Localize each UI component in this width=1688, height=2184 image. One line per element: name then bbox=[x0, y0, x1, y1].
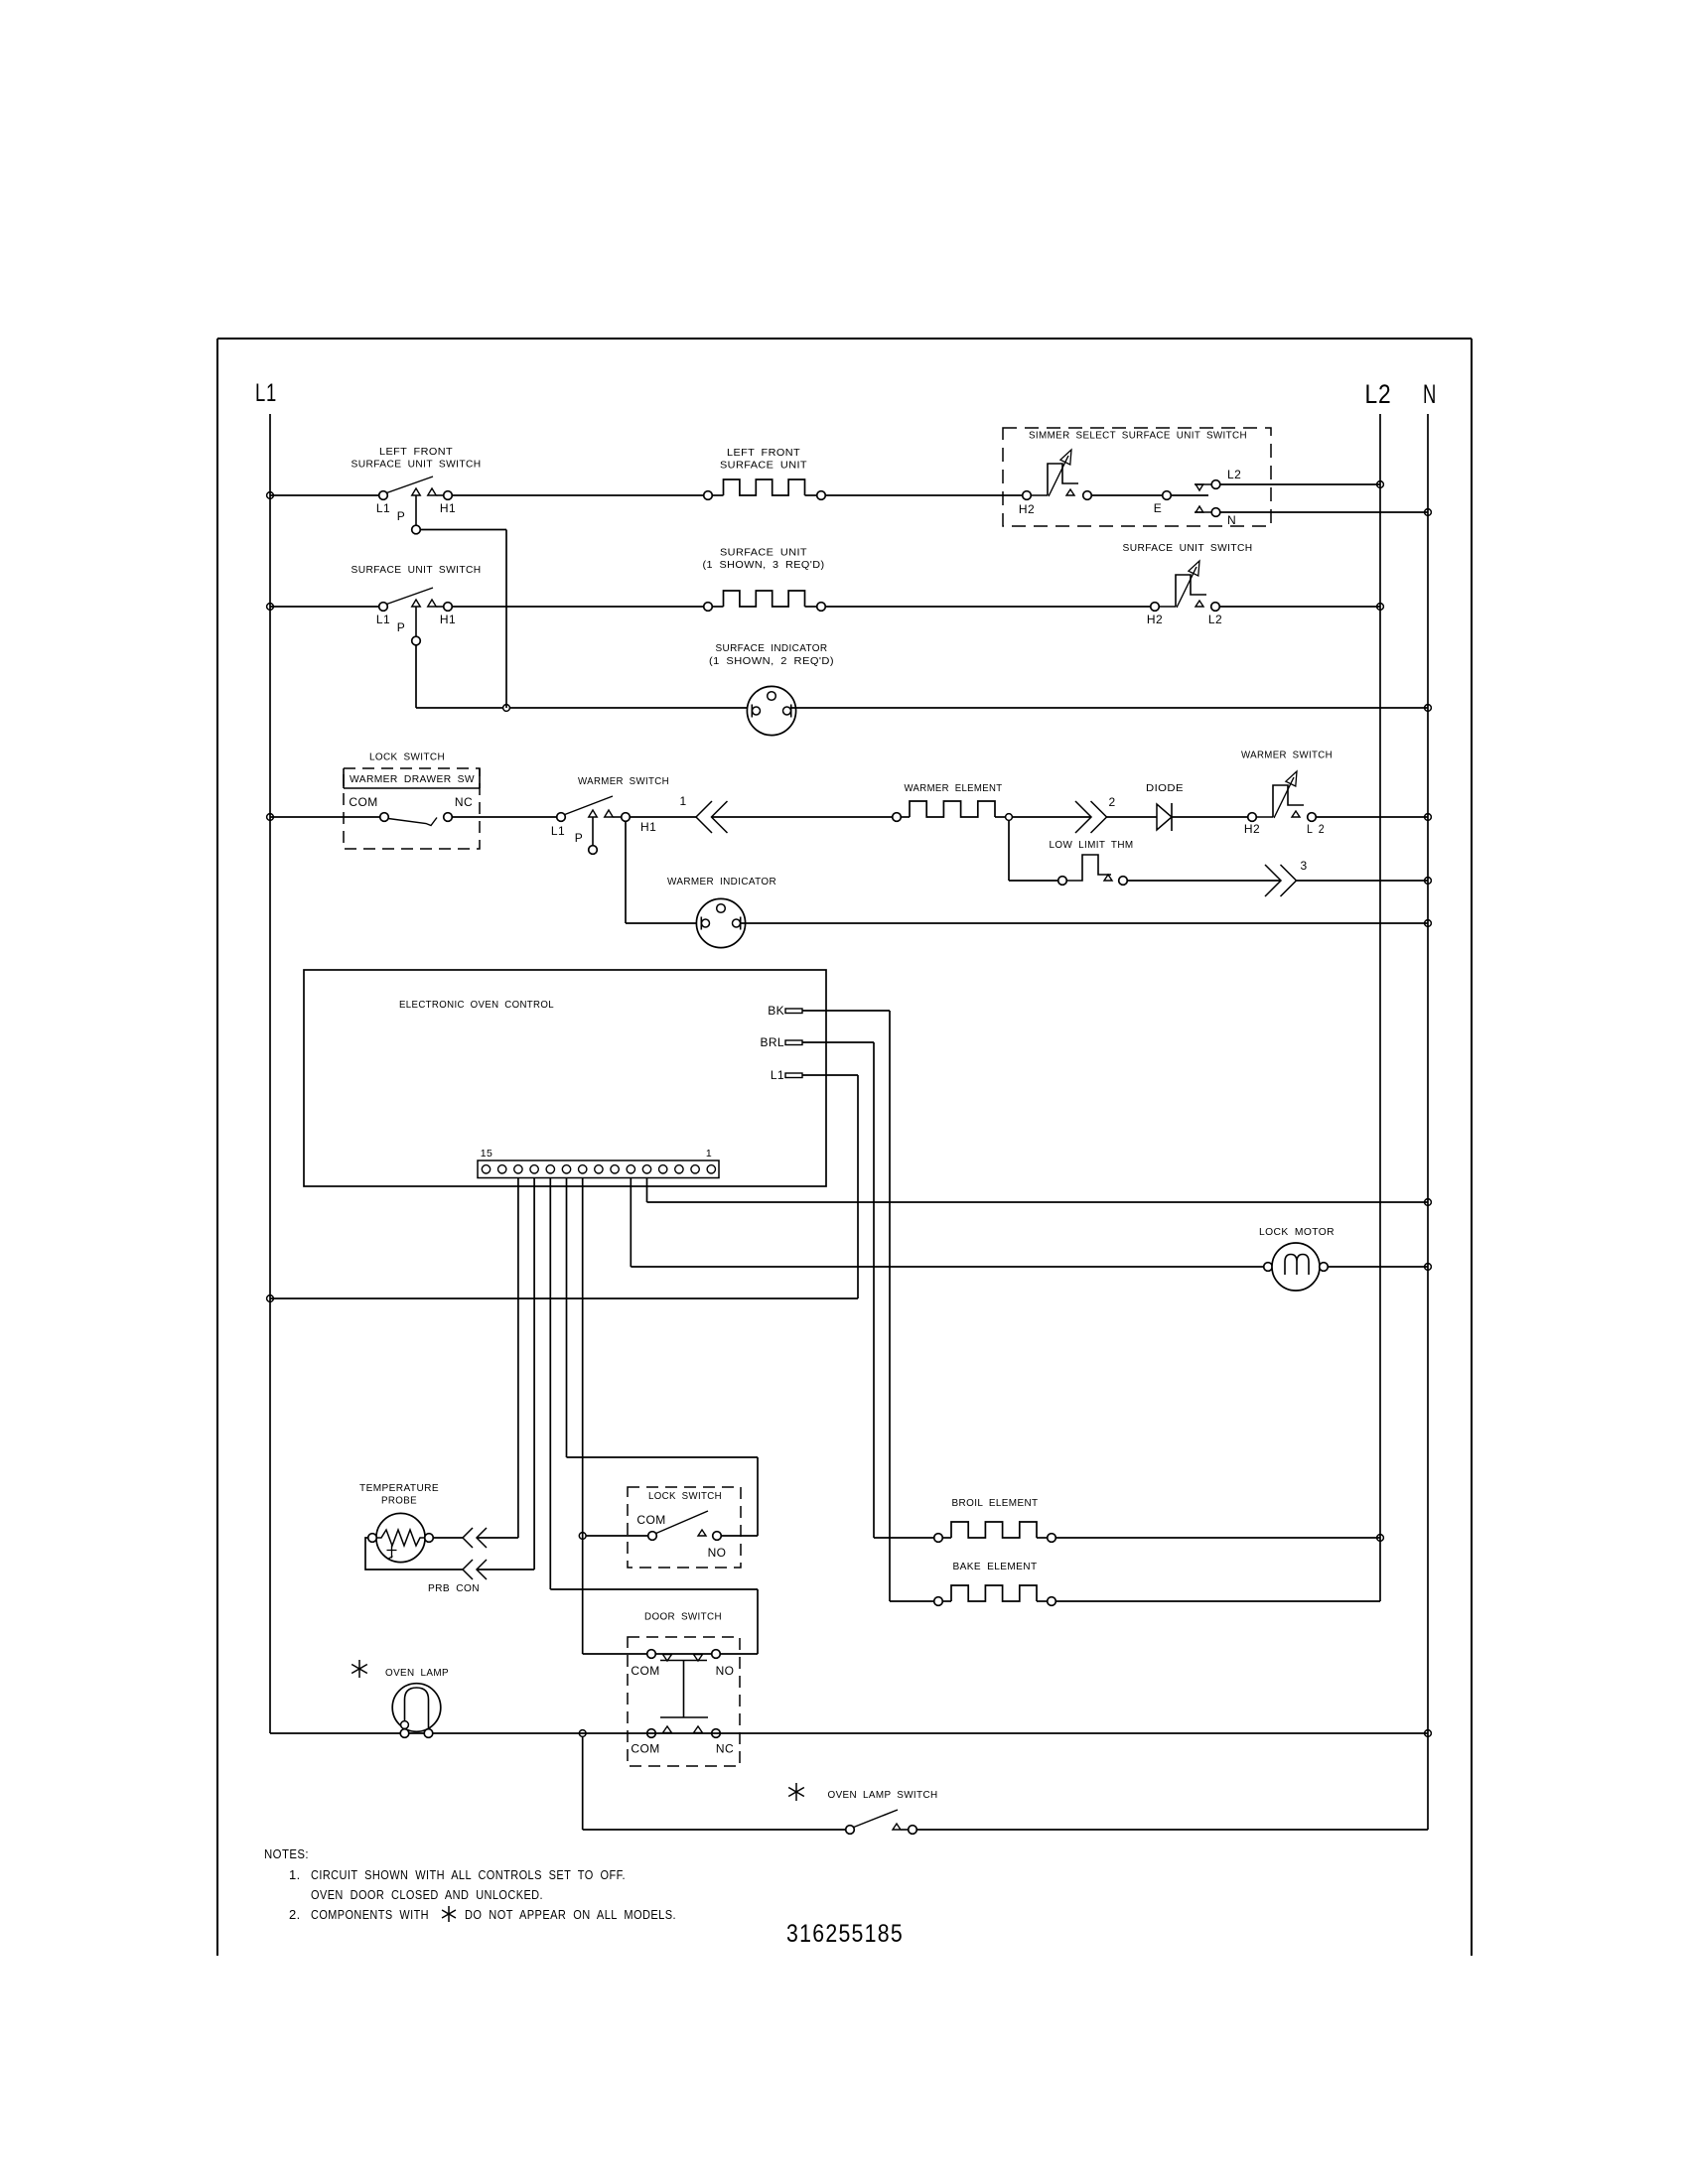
wire oven lamp switch to N rail bbox=[916, 1829, 1428, 1831]
wire upper connector to pin 13 wire bbox=[477, 1537, 518, 1539]
svg-text:(1 SHOWN, 2 REQ'D): (1 SHOWN, 2 REQ'D) bbox=[709, 655, 834, 667]
wire lock switch NO to pin10 drop bbox=[721, 1535, 758, 1537]
warmer element bbox=[893, 813, 902, 822]
wire warmer drawer NC to warmer switch L1 bbox=[452, 816, 556, 818]
wire pilot junction to surface indicator bbox=[509, 707, 752, 709]
wire BK to bake element bbox=[889, 1011, 891, 1601]
simmer select output contact L2 branch bbox=[1195, 483, 1211, 485]
terminal strip pin 11 bbox=[546, 1165, 554, 1173]
lock switch contact NO bbox=[713, 1532, 722, 1541]
svg-text:WARMER INDICATOR: WARMER INDICATOR bbox=[667, 876, 776, 887]
electronic oven control box bbox=[304, 970, 826, 1186]
wire pin 10 to lock switch NO bbox=[566, 1178, 568, 1457]
svg-text:L1: L1 bbox=[255, 379, 277, 407]
terminal strip pin 13 bbox=[514, 1165, 522, 1173]
svg-text:E: E bbox=[1154, 501, 1162, 515]
svg-text:SURFACE INDICATOR: SURFACE INDICATOR bbox=[716, 642, 828, 654]
junction node N rail oven lamp row bbox=[1425, 1730, 1432, 1737]
oven lamp asterisk bbox=[358, 1660, 360, 1678]
svg-text:15: 15 bbox=[481, 1148, 492, 1160]
svg-text:H1: H1 bbox=[440, 501, 456, 515]
svg-text:2: 2 bbox=[1108, 795, 1115, 809]
wire E stub between output contacts bbox=[1171, 494, 1208, 496]
junction node L2 rail row2 bbox=[1377, 604, 1384, 611]
svg-text:LOCK MOTOR: LOCK MOTOR bbox=[1259, 1226, 1335, 1238]
wire surface indicator to N rail bbox=[791, 707, 1429, 709]
door switch upper contact COM bbox=[647, 1650, 656, 1659]
low limit thermostat bbox=[1058, 877, 1067, 886]
wire switch H1 to surface unit element bbox=[452, 606, 703, 608]
svg-text:L1: L1 bbox=[771, 1068, 784, 1082]
wire lower connector to pin 12 wire bbox=[477, 1569, 534, 1570]
junction node N rail lock motor row bbox=[1425, 1264, 1432, 1271]
wire pin 12 to temperature probe (-) bbox=[533, 1178, 535, 1570]
door switch actuator bbox=[660, 1661, 708, 1718]
svg-text:1.: 1. bbox=[289, 1867, 301, 1882]
svg-text:L2: L2 bbox=[1208, 613, 1222, 626]
wire BRL to broil element bbox=[874, 1537, 934, 1539]
svg-text:NC: NC bbox=[716, 1742, 734, 1756]
wire pin10 over to lock switch NO drop bbox=[567, 1456, 759, 1458]
wire low limit to connector 3 bbox=[1127, 880, 1281, 882]
svg-text:N: N bbox=[1423, 379, 1437, 409]
wire BRL to broil element bbox=[873, 1042, 875, 1538]
wire EOC L1 down and to L1 rail bbox=[857, 1075, 859, 1298]
svg-text:CIRCUIT SHOWN WITH ALL CONTROL: CIRCUIT SHOWN WITH ALL CONTROLS SET TO O… bbox=[311, 1867, 626, 1882]
svg-text:PRB CON: PRB CON bbox=[428, 1582, 480, 1594]
wire pin11 over to door switch NO drop bbox=[550, 1588, 758, 1590]
wire bake element to L2 rail bottom bbox=[1055, 1600, 1380, 1602]
svg-text:SURFACE UNIT: SURFACE UNIT bbox=[720, 460, 807, 472]
warmer switch right thermostat actuator bbox=[1273, 785, 1304, 817]
terminal strip pin 7 bbox=[611, 1165, 619, 1173]
terminal strip pin 14 bbox=[498, 1165, 506, 1173]
svg-text:L 2: L 2 bbox=[1307, 822, 1325, 836]
oven lamp bbox=[392, 1684, 441, 1732]
warmer switch right moving contact triangle bbox=[1292, 811, 1300, 817]
page border frame bbox=[217, 338, 1472, 340]
svg-text:LOCK SWITCH: LOCK SWITCH bbox=[369, 751, 445, 763]
svg-text:L1: L1 bbox=[376, 501, 390, 515]
simmer select switch terminal E bbox=[1163, 491, 1172, 500]
svg-text:L1: L1 bbox=[551, 824, 565, 838]
lock switch contact COM bbox=[648, 1532, 657, 1541]
wire connector 3 to N rail bbox=[1297, 880, 1429, 882]
junction node L1 rail warmer row bbox=[267, 814, 274, 821]
terminal strip pin 2 bbox=[691, 1165, 699, 1173]
wire connector 2 to diode bbox=[1107, 816, 1158, 818]
door switch lower contact NC bbox=[712, 1729, 721, 1738]
power rail L2 bbox=[1379, 414, 1381, 1601]
simmer select switch contact H2 bbox=[1023, 491, 1032, 500]
pilot terminal P of row1 switch bbox=[415, 496, 417, 526]
surface unit heating element bbox=[704, 603, 713, 612]
wire pin 9 to lock switch COM / door switch COM bbox=[582, 1178, 584, 1654]
wire to oven lamp switch bbox=[583, 1829, 846, 1831]
junction node L1 rail EOC-L1 row bbox=[267, 1296, 274, 1302]
wire switch H1 to left front surface unit bbox=[452, 494, 703, 496]
svg-text:BK: BK bbox=[768, 1004, 784, 1018]
wire broil element to L2 rail bbox=[1055, 1537, 1380, 1539]
svg-text:SIMMER SELECT SURFACE UNIT SWI: SIMMER SELECT SURFACE UNIT SWITCH bbox=[1029, 430, 1247, 442]
EOC terminal strip bbox=[478, 1160, 719, 1178]
svg-text:LOCK SWITCH: LOCK SWITCH bbox=[648, 1490, 722, 1502]
warmer drawer sw label box bbox=[344, 768, 480, 788]
wire warmer element tap down to low limit thermostat bbox=[1008, 820, 1010, 881]
svg-text:2.: 2. bbox=[289, 1907, 301, 1922]
svg-text:COM: COM bbox=[631, 1742, 659, 1756]
svg-text:OVEN LAMP: OVEN LAMP bbox=[385, 1667, 449, 1679]
wire warmer element node to connector 2 bbox=[1012, 816, 1091, 818]
wire L1 rail to surface unit switch bbox=[270, 606, 379, 608]
wire probe right terminal to upper connector bbox=[433, 1537, 463, 1539]
lock switch blade bbox=[656, 1511, 708, 1534]
svg-text:WARMER SWITCH: WARMER SWITCH bbox=[578, 775, 669, 787]
svg-text:P: P bbox=[397, 620, 405, 634]
junction node N rail row1 bbox=[1425, 509, 1432, 516]
terminal strip pin 1 bbox=[707, 1165, 715, 1173]
surface unit switch thermostat actuator bbox=[1176, 575, 1206, 607]
wire pin9 to lock switch COM bbox=[586, 1535, 648, 1537]
temperature probe (thermistor in circle) bbox=[376, 1513, 425, 1562]
svg-text:COM: COM bbox=[636, 1513, 665, 1527]
terminal strip pin 15 bbox=[482, 1165, 490, 1173]
simmer select surface unit switch enclosure (dashed) bbox=[1003, 428, 1271, 526]
junction node N rail pin5 row bbox=[1425, 1199, 1432, 1206]
warmer switch blade bbox=[565, 796, 613, 815]
warmer drawer switch blade bbox=[388, 818, 437, 826]
simmer select switch thermostat actuator bbox=[1048, 464, 1078, 495]
terminal strip pin 4 bbox=[659, 1165, 667, 1173]
broil element bbox=[934, 1534, 943, 1543]
junction node pin9 wire at lock switch row bbox=[579, 1533, 586, 1540]
svg-text:LEFT FRONT: LEFT FRONT bbox=[379, 446, 453, 458]
warmer drawer switch enclosure (dashed) bbox=[344, 768, 480, 849]
bake element bbox=[934, 1597, 943, 1606]
svg-text:DIODE: DIODE bbox=[1146, 782, 1184, 794]
warmer switch right contact H2 bbox=[1248, 813, 1257, 822]
wire down to oven lamp switch row bbox=[582, 1736, 584, 1830]
wire warmer indicator to N rail bbox=[741, 922, 1429, 924]
wire simmer L2 contact to L2 rail bbox=[1220, 483, 1380, 485]
terminal strip pin 3 bbox=[675, 1165, 683, 1173]
wire probe left terminal loop to lower connector bbox=[365, 1538, 463, 1570]
oven lamp switch bbox=[846, 1826, 855, 1835]
junction node N rail low-limit row bbox=[1425, 878, 1432, 885]
svg-text:316255185: 316255185 bbox=[786, 1920, 904, 1948]
probe connector lower (chevrons) bbox=[463, 1560, 473, 1579]
terminal strip pin 6 bbox=[627, 1165, 634, 1173]
svg-text:NO: NO bbox=[708, 1546, 727, 1560]
junction node oven lamp row to lamp switch drop bbox=[579, 1730, 586, 1737]
temperature probe wiper mark bbox=[387, 1546, 397, 1560]
svg-text:COM: COM bbox=[631, 1664, 659, 1678]
svg-text:TEMPERATURE: TEMPERATURE bbox=[359, 1482, 439, 1494]
svg-text:WARMER DRAWER SW: WARMER DRAWER SW bbox=[350, 773, 475, 785]
terminal strip pin 8 bbox=[595, 1165, 603, 1173]
wire L1 rail to left front surface unit switch bbox=[270, 494, 379, 496]
warmer switch contact L1 bbox=[557, 813, 566, 822]
wire lock motor to N rail bbox=[1328, 1266, 1428, 1268]
svg-text:ELECTRONIC OVEN CONTROL: ELECTRONIC OVEN CONTROL bbox=[399, 999, 554, 1011]
wire simmer switch to terminal E bbox=[1091, 494, 1162, 496]
wire simmer N contact to N rail bbox=[1220, 511, 1428, 513]
svg-text:N: N bbox=[1227, 513, 1236, 527]
junction node N rail warmer row bbox=[1425, 814, 1432, 821]
surface unit switch right contact H2 bbox=[1151, 603, 1160, 612]
svg-text:WARMER ELEMENT: WARMER ELEMENT bbox=[905, 782, 1003, 794]
wire row2 P down to surface indicator row bbox=[415, 645, 417, 708]
connector plug 1 (chevrons) bbox=[696, 801, 712, 833]
svg-text:H2: H2 bbox=[1019, 502, 1035, 516]
simmer select output contact N branch bbox=[1195, 511, 1211, 513]
svg-text:COM: COM bbox=[349, 795, 377, 809]
wire pin 6 to lock motor bbox=[630, 1178, 632, 1267]
svg-text:H1: H1 bbox=[440, 613, 456, 626]
junction node L2 rail broil row bbox=[1377, 1535, 1384, 1542]
door switch upper contact NO bbox=[712, 1650, 721, 1659]
svg-text:DOOR SWITCH: DOOR SWITCH bbox=[644, 1611, 722, 1623]
wire pin9 to door switch COM row bbox=[583, 1653, 758, 1655]
wire warmer switch H1 down to warmer indicator bbox=[625, 821, 627, 923]
warmer switch pilot terminal P bbox=[592, 818, 594, 846]
wire diode to warmer switch H2 bbox=[1172, 816, 1248, 818]
svg-text:NO: NO bbox=[716, 1664, 735, 1678]
warmer switch pilot triangle bbox=[589, 810, 598, 817]
svg-text:L2: L2 bbox=[1365, 379, 1392, 409]
oven lamp switch asterisk bbox=[795, 1783, 797, 1801]
warmer drawer switch contact COM bbox=[380, 813, 389, 822]
svg-text:SURFACE UNIT SWITCH: SURFACE UNIT SWITCH bbox=[352, 459, 482, 471]
svg-text:1: 1 bbox=[706, 1148, 712, 1160]
svg-text:LOW LIMIT THM: LOW LIMIT THM bbox=[1050, 839, 1134, 851]
left front surface unit heating element bbox=[704, 491, 713, 500]
svg-text:LEFT FRONT: LEFT FRONT bbox=[727, 447, 800, 459]
wire connector 1 to warmer element bbox=[712, 816, 893, 818]
connector plug 2 (chevrons) bbox=[1075, 801, 1091, 833]
warmer drawer switch contact NC bbox=[444, 813, 453, 822]
wire warmer switch to N rail bbox=[1316, 816, 1428, 818]
surface indicator pilot lamp bbox=[747, 686, 795, 735]
svg-text:H2: H2 bbox=[1147, 613, 1163, 626]
svg-text:3: 3 bbox=[1300, 859, 1307, 873]
door switch lower triangles bbox=[663, 1726, 672, 1733]
wire pin 11 to door switch NO bbox=[549, 1178, 551, 1589]
wire element to surface unit switch H2 bbox=[825, 606, 1150, 608]
svg-text:H1: H1 bbox=[640, 820, 656, 834]
wire element to simmer select switch H2 bbox=[825, 494, 1022, 496]
power rail N bbox=[1427, 414, 1429, 1830]
wire L1 rail to warmer drawer switch bbox=[270, 816, 380, 818]
svg-text:OVEN DOOR CLOSED AND UNLOCKED.: OVEN DOOR CLOSED AND UNLOCKED. bbox=[311, 1887, 543, 1902]
probe connector upper (chevrons) bbox=[463, 1528, 473, 1548]
lock motor bbox=[1264, 1263, 1273, 1272]
simmer select switch moving contact triangle bbox=[1066, 489, 1074, 495]
junction node warmer element / low limit tap bbox=[1006, 814, 1013, 821]
junction node N rail indicator row bbox=[1425, 705, 1432, 712]
svg-text:BRL: BRL bbox=[760, 1035, 784, 1049]
svg-text:NOTES:: NOTES: bbox=[264, 1846, 309, 1861]
svg-text:DO NOT APPEAR ON ALL MODELS.: DO NOT APPEAR ON ALL MODELS. bbox=[465, 1907, 676, 1922]
svg-text:PROBE: PROBE bbox=[381, 1495, 417, 1507]
junction node L2 rail row1 bbox=[1377, 481, 1384, 488]
warmer switch fixed triangle bbox=[605, 810, 614, 817]
warmer indicator pilot lamp bbox=[696, 898, 745, 947]
lock switch fixed triangle bbox=[698, 1530, 706, 1536]
surface unit switch moving contact triangle bbox=[1196, 601, 1203, 607]
junction node row1/row2 pilot wires bbox=[503, 705, 510, 712]
svg-text:BROIL ELEMENT: BROIL ELEMENT bbox=[952, 1497, 1039, 1509]
terminal strip pin 12 bbox=[530, 1165, 538, 1173]
warmer switch contact H1 bbox=[622, 813, 631, 822]
svg-text:BAKE ELEMENT: BAKE ELEMENT bbox=[953, 1561, 1038, 1572]
door switch upper triangles bbox=[663, 1655, 672, 1662]
svg-text:NC: NC bbox=[455, 795, 473, 809]
terminal strip pin 9 bbox=[579, 1165, 587, 1173]
wire pin 6 row to lock motor bbox=[631, 1266, 1263, 1268]
svg-text:H2: H2 bbox=[1244, 822, 1260, 836]
svg-text:L1: L1 bbox=[376, 613, 390, 626]
door switch enclosure (dashed) bbox=[628, 1637, 740, 1766]
surface unit switch (left) bbox=[379, 603, 388, 612]
svg-text:WARMER SWITCH: WARMER SWITCH bbox=[1241, 750, 1333, 761]
power rail L1 bbox=[269, 414, 271, 1733]
svg-text:SURFACE UNIT SWITCH: SURFACE UNIT SWITCH bbox=[1123, 542, 1253, 554]
svg-text:(1 SHOWN, 3 REQ'D): (1 SHOWN, 3 REQ'D) bbox=[703, 559, 825, 571]
svg-text:P: P bbox=[397, 509, 405, 523]
svg-text:1: 1 bbox=[679, 794, 686, 808]
lock switch enclosure (dashed) bbox=[628, 1487, 741, 1568]
left front surface unit switch bbox=[379, 491, 388, 500]
wire warmer switch H1 to connector 1 bbox=[630, 816, 696, 818]
wire BK to bake element bbox=[890, 1600, 934, 1602]
junction node L1 rail row1 bbox=[267, 492, 274, 499]
svg-text:SURFACE UNIT SWITCH: SURFACE UNIT SWITCH bbox=[352, 564, 482, 576]
wire pin 13 to temperature probe (+) bbox=[517, 1178, 519, 1538]
svg-text:COMPONENTS WITH: COMPONENTS WITH bbox=[311, 1907, 429, 1922]
door switch lower contact COM bbox=[647, 1729, 656, 1738]
svg-text:OVEN LAMP SWITCH: OVEN LAMP SWITCH bbox=[828, 1789, 938, 1801]
svg-text:L2: L2 bbox=[1227, 468, 1241, 481]
terminal strip pin 5 bbox=[642, 1165, 650, 1173]
terminal strip pin 10 bbox=[562, 1165, 570, 1173]
oven lamp row wire L1 rail to N rail bbox=[270, 1732, 1428, 1734]
junction node N rail warmer indicator row bbox=[1425, 920, 1432, 927]
svg-text:P: P bbox=[575, 831, 583, 845]
wire pin 5 to N rail bbox=[646, 1178, 648, 1202]
wire surface unit switch to L2 rail bbox=[1219, 606, 1380, 608]
pilot terminal P of row2 switch bbox=[415, 608, 417, 637]
connector plug 3 (chevrons) bbox=[1265, 865, 1281, 896]
junction node L1 rail row2 bbox=[267, 604, 274, 611]
svg-text:SURFACE UNIT: SURFACE UNIT bbox=[720, 547, 807, 559]
diode bbox=[1157, 804, 1172, 830]
wire row1 P to surface indicator drop bbox=[420, 529, 506, 531]
